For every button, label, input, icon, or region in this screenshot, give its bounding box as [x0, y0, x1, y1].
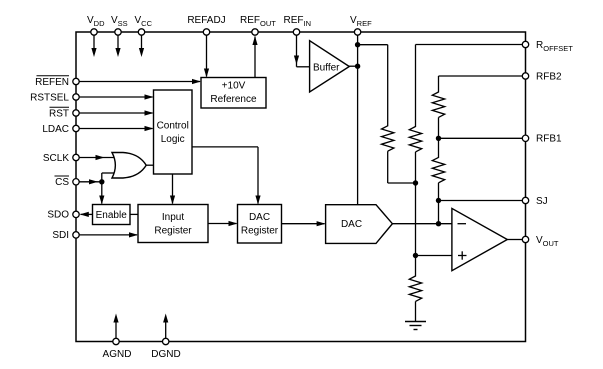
pin RFB1	[522, 134, 562, 145]
svg-text:CS: CS	[55, 177, 69, 188]
wire node to SJ	[439, 200, 523, 202]
pin VCC	[135, 15, 153, 57]
pin REFIN	[284, 15, 312, 35]
pin SCLK	[43, 153, 79, 164]
svg-text:Enable: Enable	[96, 210, 128, 221]
wire CS junction down to Enable	[99, 182, 104, 205]
pin ROFFSET	[522, 40, 573, 53]
svg-text:Register: Register	[154, 225, 192, 236]
svg-text:DAC: DAC	[249, 212, 270, 223]
pin AGND	[103, 314, 132, 361]
wire R3 to node RFB1	[438, 117, 440, 138]
svg-text:REFEN: REFEN	[35, 77, 69, 88]
pin VSS	[111, 15, 128, 57]
svg-text:AGND: AGND	[103, 349, 132, 360]
node SJ junction	[436, 198, 441, 203]
svg-text:Buffer: Buffer	[313, 63, 340, 74]
svg-text:LDAC: LDAC	[42, 124, 69, 135]
wire Enable to input register	[130, 213, 138, 215]
wire R2 bottom through node A down to opamp plus node	[415, 152, 417, 256]
pin REFOUT	[240, 15, 276, 35]
Control Logic box	[154, 90, 193, 174]
node opamp minus junction	[436, 221, 441, 226]
DAC block	[326, 205, 393, 244]
wire VREF rail down to DAC	[357, 35, 359, 205]
wire buffer output to VREF rail	[349, 65, 358, 67]
pin LDAC	[42, 124, 79, 135]
wire opamp output to VOUT	[507, 239, 522, 241]
wire R5 to ground	[415, 301, 417, 321]
svg-text:Logic: Logic	[161, 134, 185, 145]
wire Enable to SDO	[80, 212, 93, 217]
wire R4 to node SJ	[438, 183, 440, 201]
pin DGND	[151, 314, 180, 361]
wire control logic down to input register	[170, 174, 175, 205]
pin RFB2	[522, 71, 562, 82]
svg-text:Reference: Reference	[210, 94, 257, 105]
wire REFIN to buffer input	[294, 35, 310, 67]
svg-text:SCLK: SCLK	[43, 153, 69, 164]
svg-text:SDO: SDO	[47, 210, 69, 221]
ground	[405, 322, 426, 330]
wire LDAC to control logic	[79, 126, 153, 131]
output op-amp U2	[452, 208, 507, 270]
svg-text:RST: RST	[49, 108, 69, 119]
wire OR gate output to control logic	[146, 164, 153, 166]
resistor R4	[432, 157, 444, 182]
svg-text:REFADJ: REFADJ	[187, 15, 225, 26]
op-amp buffer U1	[310, 41, 350, 92]
wire VREF to resistor R1	[358, 45, 388, 127]
wire to opamp plus input	[416, 255, 452, 257]
svg-text:RFB1: RFB1	[536, 134, 562, 145]
node buffer output junction	[355, 63, 360, 68]
wire reference box to REFOUT	[252, 36, 257, 78]
pin RSTSEL	[30, 92, 79, 103]
pin SDO	[47, 210, 79, 221]
wire REFEN to reference box	[79, 79, 201, 84]
resistor R1	[382, 126, 394, 151]
wire node to resistor R4	[438, 138, 440, 158]
svg-text:RFB2: RFB2	[536, 71, 562, 82]
wire DAC register to DAC	[282, 221, 326, 226]
wire SJ node down to opamp minus node	[438, 201, 440, 224]
wire DAC output to opamp minus input	[392, 223, 452, 225]
svg-text:Register: Register	[241, 225, 279, 236]
pin VDD	[87, 15, 105, 57]
pin REFADJ	[187, 15, 225, 35]
pin VOUT	[522, 235, 559, 248]
svg-text:SJ: SJ	[536, 196, 548, 207]
wire control logic to DAC register	[192, 147, 261, 205]
svg-text:Input: Input	[162, 212, 184, 223]
wire CS junction to OR gate	[102, 173, 117, 182]
svg-text:DGND: DGND	[151, 349, 180, 360]
node opamp plus junction	[413, 253, 418, 258]
OR gate	[112, 153, 146, 179]
chip outline	[76, 32, 526, 342]
node A junction	[413, 180, 418, 185]
Input Register box	[138, 205, 208, 243]
wire RST to control logic	[79, 110, 153, 115]
svg-text:SDI: SDI	[52, 230, 69, 241]
resistor R3	[432, 92, 444, 117]
wire RFB2 to resistor R3	[439, 76, 523, 93]
svg-text:Control: Control	[157, 121, 189, 132]
svg-text:+10V: +10V	[222, 81, 246, 92]
wire ROFFSET to resistor R2	[416, 45, 523, 128]
wire node to RFB1	[439, 137, 523, 139]
svg-text:DAC: DAC	[341, 219, 362, 230]
pin REFEN	[35, 76, 79, 88]
DAC Register box	[238, 205, 282, 244]
node VREF upper junction	[355, 42, 360, 47]
resistor R2	[409, 127, 421, 152]
+10V Reference box	[201, 78, 266, 109]
pin SJ	[522, 196, 547, 207]
wire node to resistor R5	[415, 256, 417, 277]
wire R1 bottom to node A	[388, 151, 416, 183]
svg-text:RSTSEL: RSTSEL	[30, 92, 69, 103]
Enable box	[93, 205, 131, 225]
pin RST	[49, 107, 79, 119]
wire RSTSEL to control logic	[79, 94, 153, 99]
resistor R5	[409, 276, 421, 301]
wire CS to junction	[79, 179, 102, 184]
node CS junction	[99, 179, 104, 184]
wire REFADJ to reference box	[204, 35, 209, 77]
node RFB1 junction	[436, 136, 441, 141]
pin CS	[55, 176, 80, 188]
wire SCLK to OR gate	[79, 155, 117, 160]
pin SDI	[52, 230, 79, 241]
wire SDI to input register	[79, 232, 138, 237]
wire input register to DAC register	[208, 221, 238, 226]
pin VREF	[350, 15, 372, 35]
